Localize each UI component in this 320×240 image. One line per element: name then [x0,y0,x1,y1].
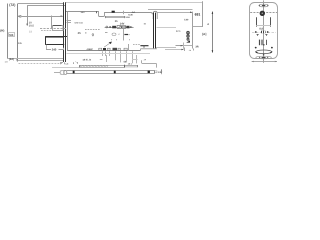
svg-text:3R: 3R [195,45,198,48]
svg-text:25: 25 [78,31,82,35]
svg-text:M4: M4 [9,33,13,37]
svg-text:17.1: 17.1 [176,30,181,33]
svg-text:(72): (72) [9,3,15,7]
svg-text:[A]: [A] [202,32,206,36]
svg-text:C49: C49 [184,19,189,22]
svg-text:40: 40 [18,14,22,18]
svg-text:xxx: xxx [81,11,86,14]
svg-text:A: A [207,23,209,26]
svg-text:23b: 23b [18,42,23,45]
svg-text:(84): (84) [9,57,14,61]
svg-text:4388P: 4388P [87,48,94,51]
svg-text:8.8: 8.8 [259,28,263,31]
svg-text:(H): (H) [0,29,4,33]
svg-text:o9 4i. In: o9 4i. In [83,58,92,61]
svg-text:r: r [119,33,120,36]
svg-text:10.5: 10.5 [29,24,35,27]
svg-text:691: 691 [195,12,201,16]
svg-text:14V: 14V [120,23,125,26]
svg-text:240: 240 [52,48,57,52]
svg-text:GM 0.5a: GM 0.5a [75,21,84,24]
